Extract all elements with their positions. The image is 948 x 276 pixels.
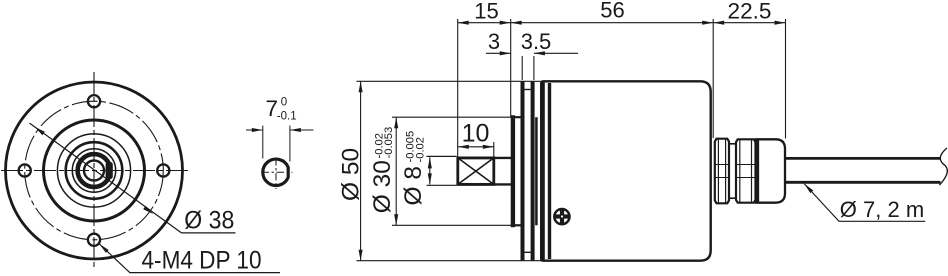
dim 7 line right arrow	[290, 129, 314, 131]
shaft section circle with flat	[263, 159, 288, 185]
horizontal centerline	[1, 170, 190, 172]
body front inner line	[548, 83, 551, 259]
svg-text:-0.02: -0.02	[414, 137, 426, 163]
cable bottom line	[785, 181, 941, 184]
svg-text:Ø 50: Ø 50	[338, 148, 365, 201]
ext Ø30 bottom	[392, 224, 511, 226]
gland dome	[756, 139, 785, 202]
front view flange outer circle	[6, 82, 183, 259]
svg-text:Ø 8: Ø 8	[400, 166, 427, 206]
dim 3	[486, 52, 511, 54]
flange plate right bar	[531, 81, 535, 260]
ext Ø8 bottom	[427, 184, 457, 186]
svg-text:Ø 30: Ø 30	[369, 160, 396, 213]
ext line plate front	[521, 56, 523, 80]
ext line plate rear	[533, 56, 535, 80]
gland ring1 flats	[715, 164, 729, 166]
shaft outline bottom	[458, 183, 513, 185]
svg-text:3.5: 3.5	[521, 29, 552, 54]
front view circle r36	[57, 134, 130, 207]
dim 10	[458, 146, 494, 148]
ext line gland end	[785, 19, 787, 139]
dim 22.5	[713, 22, 785, 24]
ext line box right	[493, 142, 495, 157]
shaft clamp box	[458, 158, 494, 185]
svg-text:Ø 38: Ø 38	[184, 207, 234, 235]
screw head	[554, 209, 569, 224]
ext Ø50 top	[357, 80, 541, 82]
gland ring 2	[736, 139, 756, 202]
svg-text:56: 56	[600, 0, 624, 23]
svg-text:4-M4 DP 10: 4-M4 DP 10	[142, 247, 262, 275]
cable leader	[804, 184, 925, 222]
flange groove bottom	[525, 251, 531, 253]
mounting hole 1	[88, 95, 100, 107]
flange groove top	[525, 89, 531, 91]
shaft outline top	[458, 157, 513, 159]
gland ring 1	[715, 139, 729, 204]
mounting hole 2	[88, 234, 100, 246]
flange plate left bar	[521, 81, 525, 260]
dimension Ø38 line	[30, 123, 236, 233]
dim 15	[458, 22, 511, 24]
svg-text:10: 10	[462, 120, 490, 148]
mounting hole 3	[19, 164, 31, 176]
bolt circle (dashed)	[25, 101, 164, 240]
front view shaft bore circle	[84, 161, 104, 181]
ext Ø50 bottom	[357, 260, 549, 262]
section crosshair vertical	[275, 158, 277, 189]
front view boss circle	[44, 120, 145, 221]
svg-text:22.5: 22.5	[728, 0, 772, 24]
dim 56	[511, 22, 714, 24]
svg-text:3: 3	[488, 29, 500, 54]
boss top edge	[511, 116, 523, 118]
dim Ø30	[395, 117, 397, 225]
cable break squiggle	[940, 148, 948, 185]
cable top line	[785, 157, 941, 160]
keyway bar	[106, 162, 113, 179]
boss front face	[511, 115, 515, 227]
front view circle r21	[72, 149, 115, 192]
svg-text:0: 0	[281, 97, 287, 109]
ext Ø30 top	[392, 116, 511, 118]
vertical centerline	[93, 72, 95, 267]
flange hub hidden edge	[535, 117, 538, 225]
dim Ø50	[360, 81, 362, 260]
dim 7 extension right	[289, 126, 291, 162]
gland neck top	[729, 143, 736, 145]
ext line body rear	[712, 19, 714, 138]
shaft box diagonal 2	[458, 158, 494, 185]
svg-text:15: 15	[474, 0, 498, 23]
section crosshair horizontal	[262, 171, 293, 173]
boss bottom edge	[511, 224, 523, 226]
front view circle r28	[66, 142, 123, 199]
body front edge (thick)	[541, 82, 545, 260]
dim 3.5	[534, 52, 578, 54]
4-M4 leader	[99, 244, 280, 273]
shaft box diagonal 1	[458, 158, 494, 185]
encoder body outline	[541, 81, 711, 260]
svg-text:-0.053: -0.053	[383, 127, 395, 159]
svg-text:Ø 7, 2 m: Ø 7, 2 m	[840, 197, 924, 222]
dim 7 line left arrow	[246, 129, 263, 131]
svg-text:-0.1: -0.1	[277, 111, 297, 123]
dim 7 extension left	[262, 126, 264, 159]
ext line flange face	[510, 19, 512, 117]
mounting hole 4	[157, 164, 169, 176]
gland neck bottom	[729, 197, 736, 199]
ext Ø8 top	[427, 155, 457, 157]
gland ring2 flats	[736, 164, 756, 166]
front view shaft ring	[78, 154, 111, 187]
dim Ø8	[429, 157, 431, 184]
ext line shaft tip	[457, 19, 459, 157]
